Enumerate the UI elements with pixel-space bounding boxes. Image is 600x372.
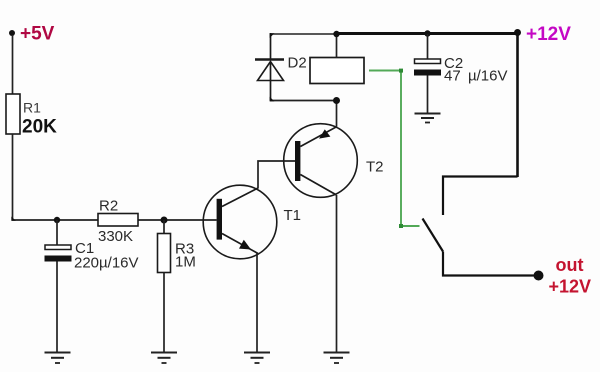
wire diode bottom to T2 node [270,100,337,102]
wire green relay contact [369,71,420,227]
wire C2 bottom to ground [427,76,429,114]
svg-text:out: out [556,255,584,275]
node +12V [514,29,521,36]
green corner dot bottom [399,224,403,228]
svg-text:T1: T1 [284,207,302,224]
svg-text:T2: T2 [366,159,384,176]
svg-text:47µ/16V: 47µ/16V [444,68,508,85]
wire R3 top [163,220,165,234]
wire C1 bottom to ground [56,262,58,353]
corner bevel diode bottom [270,97,275,102]
ground T2 [324,353,350,364]
wire to switch top [443,177,518,216]
ground C2 [415,114,441,123]
node junction C1 [54,217,60,223]
wire T2 emitter up to relay [336,101,338,128]
capacitor C2 [415,59,441,64]
transistor T2 [284,124,358,198]
node +5V terminal dot [9,30,15,36]
resistor R2 [98,214,138,227]
wire R3 bottom to ground [163,273,165,353]
wire T1 emitter to ground [256,254,258,353]
capacitor C1 [45,245,71,250]
diode D2 [255,33,284,101]
wire C1 top [56,220,58,245]
node junction R3 [161,217,168,224]
node out terminal [534,271,544,281]
wire +5V down to R1 [12,35,14,94]
wire T1 collector to T2 base [258,161,295,189]
wire top rail thin (diode to relay node) [270,33,337,35]
wire switch bottom [443,252,538,276]
svg-text:1M: 1M [175,254,196,271]
node C2 [424,30,430,36]
svg-text:220µ/16V: 220µ/16V [74,255,139,272]
green corner dot top [399,69,403,73]
switch blade [423,219,444,252]
svg-text:20K: 20K [22,117,57,138]
corner bevel R1 branch [11,217,16,221]
svg-text:+12V: +12V [526,24,571,45]
wire T2 collector down to ground [336,195,338,353]
wire C2 top [427,34,429,59]
corner bevel diode top [270,33,275,38]
transistor T1 [203,185,277,259]
ground C1 [45,353,71,364]
ground R3 [151,353,177,364]
resistor R1 [6,94,20,134]
svg-text:R1: R1 [23,100,41,116]
svg-text:+5V: +5V [20,24,55,45]
svg-text:+12V: +12V [549,277,592,297]
wire relay top [336,34,338,58]
wire +12V thick rail [337,32,518,35]
relay coil K1 [310,58,364,84]
node relay top [333,31,339,37]
wire +12V right rail down [516,34,519,178]
wire R1 bottom down and right to T1 base rail [13,134,217,220]
node relay bottom [333,97,340,104]
ground T1 [244,353,270,364]
svg-text:D2: D2 [288,55,307,72]
svg-text:330K: 330K [98,228,133,245]
svg-text:R2: R2 [99,198,118,215]
resistor R3 [158,234,171,273]
